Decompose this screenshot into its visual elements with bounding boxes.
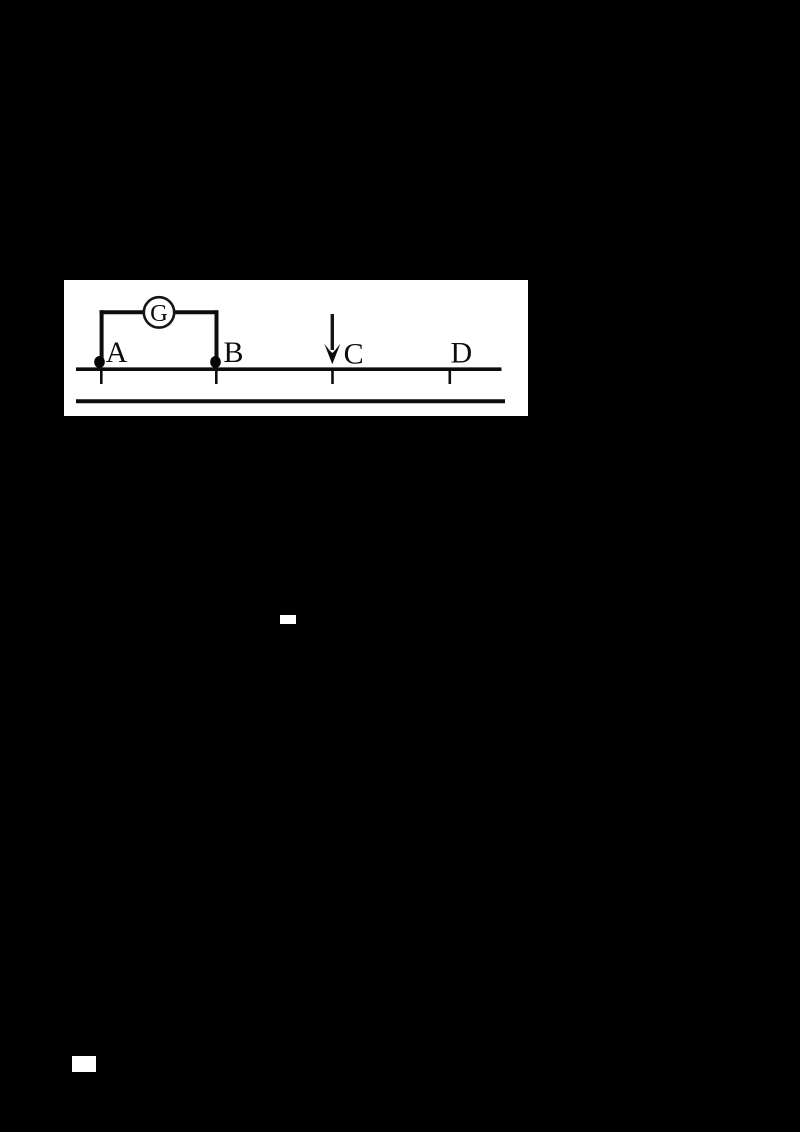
jockey arrow at C — [331, 314, 334, 350]
white diagram panel — [64, 280, 528, 416]
galvanometer G — [144, 297, 174, 327]
svg-text:A: A — [106, 336, 128, 369]
junction dot at B — [210, 356, 221, 368]
small white mark (scan artifact) center — [280, 615, 296, 624]
svg-text:D: D — [451, 336, 473, 369]
wire: vertical lead from A up to galvanometer — [100, 310, 104, 362]
tick at node B — [215, 371, 218, 384]
wire: lower return wire (bottom line) — [76, 399, 505, 403]
tick at node D — [448, 371, 451, 384]
wire: main potentiometer wire (top line) — [76, 367, 502, 371]
tick at node A — [100, 371, 103, 384]
svg-text:B: B — [224, 336, 244, 369]
small white mark (scan artifact) bottom-left — [72, 1056, 96, 1072]
wire: vertical lead from B up to galvanometer — [215, 310, 219, 362]
svg-text:G: G — [150, 300, 168, 327]
wire: top horizontal lead through galvanometer — [100, 310, 219, 314]
svg-text:C: C — [344, 338, 364, 371]
tick at node C — [331, 371, 334, 384]
junction dot at A — [94, 356, 105, 368]
